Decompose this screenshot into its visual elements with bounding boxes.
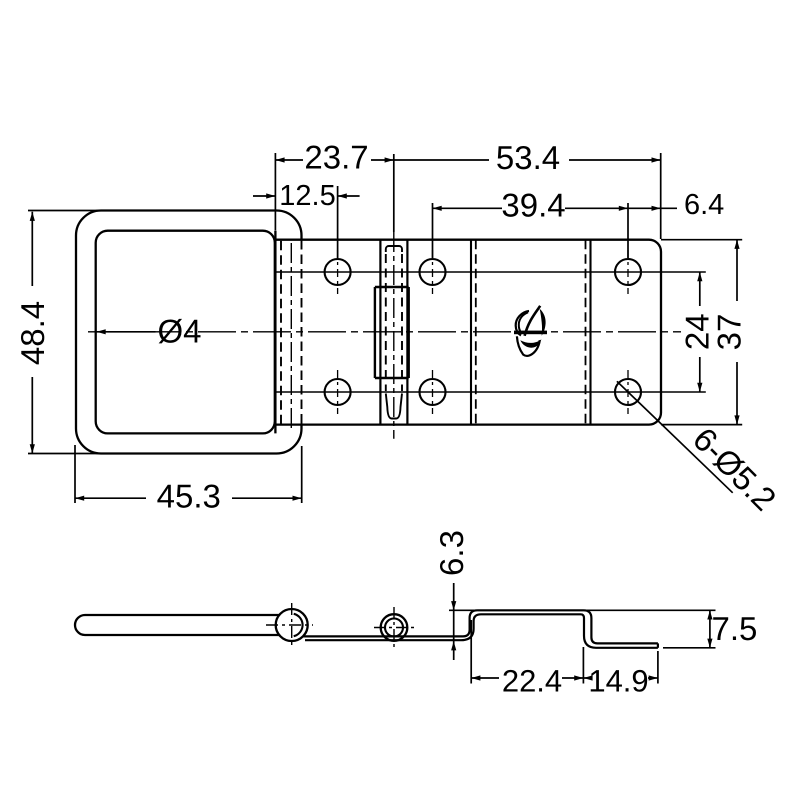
svg-text:6.4: 6.4: [684, 189, 724, 221]
horizontal centerline left part: [88, 331, 511, 333]
svg-text:6.3: 6.3: [433, 530, 470, 576]
dim 23.7: [275, 153, 393, 231]
knuckle top slot opening: [386, 246, 402, 252]
hinge knuckle outer strip: [379, 240, 381, 425]
loop bar (stadium): [75, 615, 280, 635]
dim 7.5: [709, 610, 711, 648]
hinge pin extension line: [393, 154, 395, 232]
bend line up (solid): [470, 240, 472, 425]
loop hidden inner-right wire edge dashed: [280, 241, 282, 424]
plate end cap: [657, 643, 659, 647]
hole 3 (432.5,272): [420, 259, 446, 285]
leader Ø4: [97, 331, 156, 333]
loop inner outline: [96, 231, 275, 434]
rivet circle2: [381, 614, 408, 641]
svg-text:53.4: 53.4: [496, 139, 560, 176]
svg-text:39.4: 39.4: [501, 187, 565, 224]
dim 22.4 / 14.9: [471, 620, 658, 684]
knuckle bottom tab (tapered): [386, 394, 402, 419]
raised flat top edge: [477, 609, 583, 611]
dim 37 vertical: [736, 240, 738, 425]
extension top surface line (6.3/7.5): [449, 609, 716, 611]
plate bottom edge extension to 37 dim: [661, 424, 742, 426]
plate profile bottom surface: [305, 614, 658, 648]
plate profile top surface: [303, 610, 477, 636]
logo mark: [514, 306, 547, 356]
svg-text:48.4: 48.4: [14, 301, 51, 365]
hinge knuckle wide strip: [375, 287, 409, 378]
leader 6-Ø5.2: [617, 381, 733, 493]
loop wire centerline (vertical dash-dot): [290, 243, 292, 430]
svg-text:37: 37: [711, 314, 748, 351]
extension bottom line (7.5): [663, 647, 716, 649]
dim 45.3: [75, 445, 302, 503]
svg-text:23.7: 23.7: [304, 139, 368, 176]
hole 5 (628,272): [615, 259, 641, 285]
down bend top surface: [584, 610, 658, 643]
svg-text:14.9: 14.9: [588, 664, 648, 699]
dim 6.3: [453, 583, 455, 660]
dim 6.4: [628, 207, 677, 209]
hole 6 (628,392): [615, 379, 641, 405]
hole row line bottom: [277, 391, 706, 393]
bend line up tangent hidden: [475, 240, 477, 425]
dim 48.4 vertical: [28, 211, 101, 454]
knuckle slot hidden sides: [385, 254, 387, 391]
dim 53.4: [394, 153, 661, 239]
hole row line top: [277, 271, 706, 273]
hole 2 (337.6,392): [325, 379, 351, 405]
horizontal centerline right part: [551, 331, 681, 333]
dim 12.5: [253, 186, 360, 258]
loop outer solid outline: [76, 211, 302, 454]
hole 4 (432.5,392): [420, 379, 446, 405]
plate top edge extension to 37 dim: [661, 239, 742, 241]
svg-text:45.3: 45.3: [157, 478, 221, 515]
bend line down tangent hidden: [585, 240, 587, 425]
dim 24 vertical: [699, 272, 701, 392]
loop outer right edge hidden (dashed): [301, 240, 303, 425]
bend line down (solid): [589, 240, 591, 425]
hole 1 (337.6,272): [325, 259, 351, 285]
svg-text:Ø4: Ø4: [158, 313, 202, 350]
hinge curl circle1: [276, 609, 308, 641]
svg-text:7.5: 7.5: [712, 610, 758, 647]
plate outline: [275, 240, 661, 425]
plate left edge: [274, 231, 276, 434]
hinge pin centerline: [393, 232, 395, 439]
dim 39.4: [433, 203, 629, 258]
svg-text:22.4: 22.4: [502, 664, 562, 699]
svg-text:12.5: 12.5: [279, 180, 335, 212]
